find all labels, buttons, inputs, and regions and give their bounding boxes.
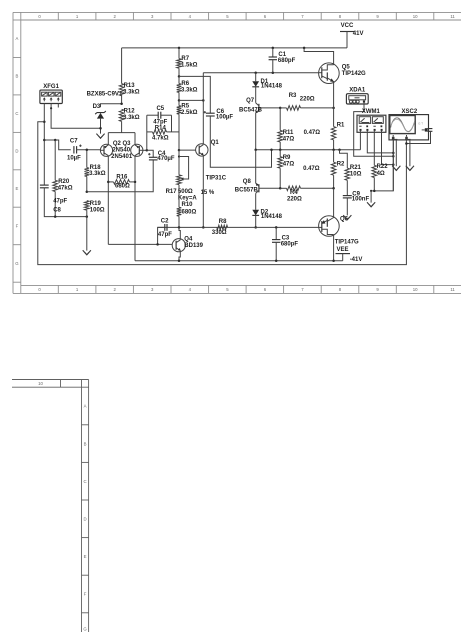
svg-text:A: A — [84, 404, 87, 409]
resistor R19 100 — [85, 201, 105, 217]
node ext/B+ junction — [405, 142, 408, 145]
ground under D3 — [96, 134, 104, 139]
node load ground tee — [370, 190, 372, 192]
wire XWM1 T3 to R22 — [373, 131, 375, 165]
svg-text:100µF: 100µF — [216, 114, 233, 120]
transistor Q6 TIP147G — [319, 216, 359, 246]
node Q4 emitter / VEE rail — [178, 260, 181, 263]
svg-text:XDA1: XDA1 — [349, 88, 366, 94]
svg-text:680Ω: 680Ω — [182, 209, 197, 215]
svg-text:100Ω: 100Ω — [90, 208, 105, 214]
resistor R13 3.3k — [119, 48, 139, 104]
wire Q1 base — [179, 149, 196, 151]
resistor R4 220 — [280, 186, 333, 203]
svg-text:R11: R11 — [283, 130, 294, 136]
svg-text:3.3kΩ: 3.3kΩ — [181, 88, 198, 94]
wire Q6 base line — [158, 226, 319, 228]
svg-text:Q7: Q7 — [246, 98, 255, 104]
wire scope A+ vertical — [392, 140, 394, 191]
sheet 1 ruler letters — [15, 36, 19, 266]
svg-text:C3: C3 — [282, 235, 290, 241]
node C3 top — [275, 226, 278, 229]
wire XFG1 pin2 to ground node — [51, 104, 100, 129]
svg-text:330Ω: 330Ω — [212, 230, 227, 236]
wire scope ext connector to B+ — [406, 131, 430, 143]
svg-text:11: 11 — [450, 14, 455, 19]
node R7/R6 junction — [178, 75, 181, 78]
wire VCC bus — [122, 47, 347, 49]
svg-text:47Ω: 47Ω — [283, 162, 295, 168]
wire R6R5 node to Q1 collector line — [179, 99, 203, 101]
svg-text:B: B — [15, 74, 18, 79]
wire XFG1 pin1 (input signal) — [43, 104, 45, 186]
node output/C6 loop — [270, 149, 273, 152]
svg-text:R3: R3 — [289, 93, 297, 99]
svg-text:R6: R6 — [181, 81, 189, 87]
svg-text:220Ω: 220Ω — [287, 197, 302, 203]
svg-text:C2: C2 — [161, 218, 169, 224]
svg-text:500Ω: 500Ω — [178, 189, 193, 195]
VEE power symbol -41V — [336, 247, 363, 263]
svg-text:680pF: 680pF — [281, 242, 299, 248]
svg-text:TIP147G: TIP147G — [335, 240, 359, 246]
node VCC/Q5 junction — [303, 47, 306, 50]
svg-text:E: E — [15, 186, 18, 191]
svg-text:R2: R2 — [337, 162, 345, 168]
svg-text:C: C — [83, 479, 86, 484]
resistor R22 4 load — [372, 164, 388, 191]
wire scope A- to ground — [395, 140, 397, 166]
node R20/ground-line junction — [54, 215, 57, 218]
node T2 line / scope A+ — [392, 152, 395, 155]
wire XWM1 T2 to A+ — [367, 131, 393, 153]
wire Q4 emitter to VEE rail — [179, 251, 180, 261]
wire XWM1 T4 to A+ — [382, 131, 394, 165]
wire scope B- to ground — [409, 140, 411, 166]
node R4 right / R2 bottom junction — [332, 187, 335, 190]
node VCC/R7 junction — [178, 47, 181, 50]
node T4 line / scope A+ — [392, 163, 395, 166]
wire Q1 emitter down — [202, 155, 204, 227]
resistor R12 3.3k — [119, 108, 139, 132]
node input/C7 junction — [43, 139, 46, 142]
svg-text:Q4: Q4 — [184, 237, 193, 243]
resistor R11 47 — [278, 108, 294, 150]
resistor R18 3.3k — [85, 150, 106, 192]
wire junction to C4 top — [147, 150, 153, 157]
svg-text:BD139: BD139 — [184, 243, 203, 249]
wire XFG1 pin3 stub — [57, 104, 59, 108]
resistor R5 2.5k — [177, 100, 198, 150]
svg-text:D3: D3 — [93, 104, 101, 110]
svg-text:10: 10 — [413, 14, 418, 19]
svg-text:1N4148: 1N4148 — [261, 214, 283, 220]
svg-text:F: F — [16, 223, 19, 228]
node Q1 emitter/R8 line — [202, 226, 205, 229]
svg-text:Q8: Q8 — [243, 179, 252, 185]
wire Q5 base line — [203, 72, 318, 74]
sheet 2 border frame (partial) — [12, 380, 89, 632]
resistor R16 680 — [108, 174, 135, 189]
svg-text:R20: R20 — [58, 179, 70, 185]
resistor R8 330 — [212, 219, 228, 236]
wire load return loop — [371, 140, 393, 191]
node R16 right junction — [134, 181, 137, 184]
node Q1 base junction — [178, 149, 181, 152]
capacitor C6 100uF bootstrap — [204, 109, 234, 120]
svg-text:R17: R17 — [166, 189, 178, 195]
svg-text:47kΩ: 47kΩ — [58, 186, 73, 192]
transistor Q4 BD139 — [172, 237, 203, 252]
svg-text:R10: R10 — [182, 202, 194, 208]
svg-text:A: A — [15, 36, 18, 41]
transistor Q8 BC557B — [235, 179, 280, 194]
svg-text:R8: R8 — [219, 219, 227, 225]
resistor R2 0.47 — [303, 150, 345, 189]
node D3/ground junction — [99, 127, 102, 130]
svg-text:4Ω: 4Ω — [377, 171, 385, 177]
svg-text:Q5: Q5 — [342, 65, 351, 71]
wire input node to C7 — [44, 140, 71, 150]
resistor R14 4.7k — [147, 115, 179, 141]
svg-text:R21: R21 — [350, 165, 362, 171]
wire C2 left to Q4 base — [158, 227, 165, 244]
node input/return junction — [43, 121, 46, 124]
ground under load — [367, 202, 375, 207]
wire input to scope-B return — [38, 122, 407, 265]
wire Q2 collector down — [107, 156, 109, 245]
resistor R9 47 — [278, 150, 294, 189]
svg-text:470µF: 470µF — [157, 156, 174, 162]
svg-text:R16: R16 — [116, 174, 128, 180]
svg-text:VEE: VEE — [336, 247, 348, 253]
wire Q2/Q3 emitter bus — [108, 132, 135, 134]
svg-text:15 %: 15 % — [201, 190, 215, 196]
labels Q2 Q3 2N5401 — [111, 141, 133, 160]
node Q3-base/C5R14/C4 junction — [146, 149, 149, 152]
wire Q8 emitter up to output — [255, 150, 257, 184]
svg-text:Q2 Q3: Q2 Q3 — [113, 141, 131, 147]
ground scope A- — [392, 166, 400, 171]
capacitor C9 100nF — [343, 191, 370, 215]
svg-text:R13: R13 — [124, 83, 136, 89]
wire XDA1 to A+ node — [354, 103, 394, 157]
node C3 bottom / VEE rail — [275, 260, 278, 263]
wire Q6 collector top — [333, 188, 335, 217]
svg-text:R9: R9 — [283, 155, 291, 161]
svg-text:0.47Ω: 0.47Ω — [303, 166, 320, 172]
svg-text:680Ω: 680Ω — [115, 184, 130, 190]
node R16 left junction — [107, 181, 110, 184]
capacitor C7 10uF — [67, 139, 100, 162]
svg-text:R12: R12 — [124, 108, 136, 114]
svg-text:3.3kΩ: 3.3kΩ — [89, 171, 106, 177]
node R22 bottom — [373, 190, 376, 193]
svg-text:R22: R22 — [377, 164, 389, 170]
node Q8 base / R9 junction — [279, 187, 282, 190]
wire to ground under R19 — [86, 217, 88, 251]
function generator XFG1 — [40, 84, 62, 103]
transistor Q3 2N5401 — [131, 144, 147, 156]
wire feedback node to C4 — [87, 160, 153, 192]
resistor R21 10 — [340, 150, 362, 196]
svg-text:R5: R5 — [181, 103, 189, 109]
sheet 1 border frame — [13, 12, 461, 293]
node output/R1R2 — [332, 149, 335, 152]
VCC power symbol 41V — [340, 23, 363, 48]
svg-text:R19: R19 — [90, 201, 102, 207]
oscilloscope XSC2 — [389, 109, 432, 140]
wire C5/R14 left vertical — [146, 115, 148, 150]
svg-text:41V: 41V — [353, 31, 364, 37]
wire Q3 collector down to VEE rail — [134, 156, 136, 261]
svg-text:R4: R4 — [290, 190, 298, 196]
capacitor C3 680pF — [272, 227, 298, 260]
node C2/Q4-base junction — [156, 243, 159, 246]
svg-text:E: E — [84, 554, 87, 559]
node R10/C2/Q4-collector junction — [178, 226, 181, 229]
resistor R10 680 — [177, 185, 197, 228]
svg-text:Q1: Q1 — [211, 140, 220, 146]
svg-text:10µF: 10µF — [67, 156, 81, 162]
node R20 tap — [54, 139, 57, 142]
svg-text:BZX85-C9V1: BZX85-C9V1 — [87, 92, 123, 98]
wire VEE rail — [135, 260, 343, 262]
svg-text:D: D — [15, 149, 18, 154]
svg-text:0.47Ω: 0.47Ω — [304, 130, 321, 136]
node output/R21 tap — [338, 149, 341, 152]
wire output node line — [256, 149, 361, 151]
wire Q7 emitter down to output — [255, 113, 257, 150]
wire ground stub load — [370, 191, 372, 203]
svg-text:C7: C7 — [70, 139, 78, 145]
node output/R11R9 — [279, 149, 282, 152]
svg-text:47pF: 47pF — [53, 198, 67, 204]
node D1 top — [254, 71, 257, 74]
node XDA1 line / scope A+ — [392, 155, 395, 158]
svg-text:10Ω: 10Ω — [350, 172, 362, 178]
svg-text:F: F — [84, 592, 87, 597]
resistor R20 47k — [53, 140, 73, 217]
wire R7R6 node to C6 top — [179, 76, 210, 113]
ground under R19 — [83, 250, 91, 255]
node VCC/C1 junction — [272, 47, 275, 50]
svg-text:2N540: 2N540 — [112, 148, 130, 154]
svg-text:R14: R14 — [155, 125, 167, 131]
diode D1 1N4148 — [252, 73, 282, 103]
capacitor C8 47pF — [40, 185, 87, 217]
svg-text:R18: R18 — [90, 165, 102, 171]
svg-text:10: 10 — [38, 381, 43, 386]
svg-text:-41V: -41V — [350, 257, 363, 263]
wattmeter XWM1 — [357, 109, 386, 132]
node XFG1 pin2 terminal — [50, 107, 52, 109]
node Q1-collector line junction — [202, 99, 205, 102]
svg-text:47Ω: 47Ω — [283, 137, 295, 143]
svg-text:220Ω: 220Ω — [300, 97, 315, 103]
svg-text:BC547B: BC547B — [239, 107, 263, 113]
svg-text:D: D — [83, 517, 86, 522]
capacitor C1 680pF — [269, 48, 296, 73]
resistor R7 1.5k — [177, 48, 198, 77]
node R6/R5 junction — [178, 99, 181, 102]
svg-text:G T: G T — [418, 121, 423, 125]
svg-text:100nF: 100nF — [352, 197, 370, 203]
svg-text:3.3kΩ: 3.3kΩ — [123, 90, 140, 96]
transistor Q2 2N5401 — [100, 144, 112, 156]
node D2 bottom — [254, 226, 257, 229]
ground scope B- — [406, 166, 414, 171]
svg-text:2.5kΩ: 2.5kΩ — [181, 110, 198, 116]
svg-text:Key=A: Key=A — [178, 195, 198, 201]
svg-text:C8: C8 — [53, 207, 61, 213]
svg-text:B: B — [84, 441, 87, 446]
wire C6 bottom to output loop — [210, 116, 271, 167]
svg-text:680pF: 680pF — [278, 58, 296, 64]
node Q6 / VEE rail — [332, 260, 335, 263]
transistor Q5 TIP142G — [319, 63, 366, 84]
svg-text:XWM1: XWM1 — [362, 109, 381, 115]
svg-text:TIP142G: TIP142G — [342, 71, 366, 77]
capacitor C4 470uF — [148, 151, 175, 162]
transistor Q1 TIP31C — [196, 140, 227, 182]
capacitor C2 47pF — [158, 218, 172, 238]
svg-text:BC557B: BC557B — [235, 188, 259, 194]
svg-text:1N4148: 1N4148 — [261, 84, 283, 90]
wire Q1 collector up to Q5 base line — [202, 73, 204, 145]
resistor R1 0.47 — [304, 108, 345, 150]
transistor Q7 BC547B — [239, 98, 280, 114]
diode D2 1N4148 — [252, 193, 282, 227]
svg-text:TIP31C: TIP31C — [206, 176, 227, 182]
wire Q4 collector — [179, 227, 180, 240]
svg-text:11: 11 — [450, 287, 455, 292]
resistor R3 220 — [280, 93, 333, 110]
svg-text:C: C — [15, 111, 18, 116]
sheet 2 ruler labels — [38, 381, 87, 631]
wire Q6 emitter to VEE rail — [333, 235, 335, 261]
node output/Q7Q8 emitters — [254, 149, 257, 152]
potentiometer R17 500 Key=A 15% — [166, 150, 215, 201]
sheet 1 ruler numbers — [38, 14, 455, 292]
node Q7 base / R11 junction — [279, 107, 282, 110]
node R3 right / Q5 emitter junction — [332, 107, 335, 110]
ground under C9 — [343, 215, 351, 220]
distortion analyzer XDA1 — [346, 88, 368, 104]
svg-text:R1: R1 — [337, 122, 345, 128]
node C7/R18/Q2-base junction — [86, 149, 89, 152]
node C1 bottom — [272, 71, 275, 74]
resistor R6 3.3k — [177, 76, 198, 100]
svg-text:XFG1: XFG1 — [43, 84, 59, 90]
wire Q4 base line — [108, 243, 172, 245]
wire Q5 collector to VCC — [304, 48, 334, 65]
wire XWM1 T1 to output — [359, 131, 361, 150]
zener diode D3 BZX85-C9V1 — [87, 92, 123, 134]
svg-text:10: 10 — [413, 287, 418, 292]
svg-text:C5: C5 — [156, 106, 164, 112]
node R13/R12/D3 junction — [120, 102, 123, 105]
node feedback R18/R19/C4 junction — [86, 190, 89, 193]
svg-text:R7: R7 — [181, 56, 189, 62]
svg-text:4.7kΩ: 4.7kΩ — [152, 135, 169, 141]
wire Q5 emitter down — [333, 81, 335, 108]
capacitor C5 47pF — [147, 106, 172, 126]
node R19/ground-line junction — [86, 215, 89, 218]
svg-text:3.3kΩ: 3.3kΩ — [123, 115, 140, 121]
svg-text:2N5401: 2N5401 — [111, 154, 133, 160]
svg-text:1.5kΩ: 1.5kΩ — [181, 62, 198, 68]
svg-text:47pF: 47pF — [158, 232, 172, 238]
svg-text:VCC: VCC — [341, 23, 354, 29]
